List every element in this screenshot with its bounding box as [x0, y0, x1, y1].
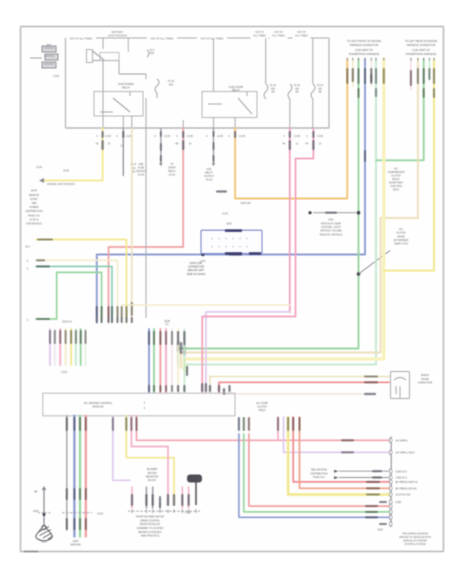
- code2: [79, 488, 81, 500]
- svg-text:C135: C135: [317, 135, 324, 138]
- wire: [66, 416, 68, 530]
- wire: [183, 329, 185, 393]
- svg-text:PK: PK: [282, 144, 286, 146]
- bundle A pin: [116, 317, 118, 323]
- wire: [188, 487, 190, 508]
- orange pin blob: [234, 131, 236, 138]
- connector pin ticks group1: [346, 58, 348, 61]
- frame bottom dash: [24, 551, 38, 553]
- wire pale cap: [224, 393, 363, 395]
- ground symbol G201: [36, 525, 52, 541]
- svg-text:A/C WPR-1: A/C WPR-1: [396, 440, 409, 443]
- big module box: [43, 393, 235, 416]
- pin code: [181, 494, 183, 506]
- pigtail code: [131, 302, 133, 316]
- wire: [73, 416, 75, 537]
- code: [80, 330, 82, 344]
- wire: [171, 329, 173, 393]
- pin2: [228, 385, 230, 392]
- relay R2 box: [94, 92, 143, 117]
- lead to power symbol: [30, 57, 42, 59]
- svg-text:C220: C220: [61, 371, 68, 374]
- wire lavender: [113, 416, 130, 481]
- svg-text:C135: C135: [36, 166, 43, 169]
- end code: [180, 342, 182, 354]
- code: [364, 381, 378, 383]
- wire pink vertical: [289, 128, 291, 312]
- bundle A pin: [101, 317, 103, 323]
- pale code: [370, 74, 372, 84]
- wire pink: [202, 128, 313, 393]
- code: [182, 140, 184, 150]
- splice dot S401: [357, 211, 361, 215]
- code: [364, 375, 378, 377]
- code3: [66, 518, 68, 530]
- svg-text:C290: C290: [377, 530, 383, 532]
- relay body: [100, 53, 119, 61]
- svg-text:PK: PK: [305, 144, 309, 146]
- feed line x128: [127, 38, 129, 52]
- capacitor box: [391, 372, 410, 399]
- code: [375, 68, 377, 84]
- pin: [165, 385, 167, 392]
- wire: [85, 416, 87, 537]
- svg-text:C135: C135: [239, 135, 246, 138]
- wire: [65, 329, 67, 365]
- wire: [75, 329, 77, 365]
- label: [36, 265, 50, 267]
- svg-text:C290 (GY): C290 (GY): [396, 470, 408, 473]
- pin code yellow: [167, 494, 169, 506]
- wire: [153, 329, 155, 393]
- svg-text:C135: C135: [217, 135, 224, 138]
- wire red cap: [219, 381, 389, 383]
- R3 pin down 2: [234, 118, 236, 129]
- svg-text:RD: RD: [175, 144, 179, 146]
- pin blob: [102, 131, 104, 138]
- code: [159, 331, 161, 345]
- wire tan: [181, 59, 418, 368]
- pin: [218, 385, 220, 392]
- end code: [186, 366, 188, 376]
- wire green loop: [36, 272, 102, 322]
- fuse F2: [147, 50, 149, 57]
- wire: [131, 487, 133, 508]
- wire: [70, 329, 72, 365]
- fuse F5 output gray: [312, 99, 314, 128]
- code: [372, 470, 382, 472]
- orange label: [216, 190, 227, 192]
- green code blob: [357, 68, 359, 84]
- motor symbol dark: [187, 475, 202, 483]
- feed to relay R3: [213, 38, 215, 92]
- pin: [159, 385, 161, 392]
- svg-text:C290: C290: [396, 501, 402, 504]
- svg-text:CLUTCH FLD: CLUTCH FLD: [396, 494, 411, 497]
- code on red2: [366, 487, 380, 489]
- pin: [209, 385, 211, 392]
- stub code: [125, 306, 127, 318]
- wire cream LB: [122, 305, 290, 323]
- svg-text:C100: C100: [53, 75, 60, 78]
- pin: [223, 388, 225, 395]
- wire BK: [160, 128, 162, 163]
- feed to relay R1: [102, 38, 104, 49]
- svg-text:30-2: 30-2: [25, 247, 30, 249]
- code: [79, 417, 81, 431]
- wire dark gray long: [145, 98, 147, 318]
- wire red D1: [293, 417, 389, 482]
- wire pink D: [249, 434, 389, 506]
- code on yellow: [366, 493, 380, 495]
- svg-text:C290 (GY): C290 (GY): [396, 477, 408, 480]
- svg-text:C135: C135: [187, 135, 194, 138]
- svg-text:C220: C220: [97, 513, 104, 516]
- wire red D2: [300, 417, 390, 488]
- wire orange OG: [235, 59, 347, 199]
- code: [85, 417, 87, 431]
- arrow 1: [334, 470, 339, 473]
- label: [36, 259, 45, 261]
- connector dashed line C250: [128, 510, 200, 512]
- svg-text:S205: S205: [226, 223, 232, 225]
- fuse box bottom edge: [66, 127, 330, 129]
- label: [36, 318, 50, 320]
- code: [238, 417, 240, 431]
- code: [243, 417, 245, 431]
- code: [135, 417, 137, 431]
- blue code blob2: [364, 150, 366, 162]
- wire green D: [244, 434, 389, 512]
- wire BK 2: [213, 128, 215, 163]
- wire yellow YE: [42, 128, 103, 181]
- arrow 2: [334, 476, 339, 479]
- feed to fuse F5: [312, 38, 314, 84]
- arrow line 2: [339, 477, 389, 479]
- code: [65, 330, 67, 344]
- stub code: [101, 306, 103, 318]
- pin down red feed: [182, 120, 184, 128]
- svg-text:HOT AT ALL TIMES: HOT AT ALL TIMES: [151, 36, 174, 40]
- blue stub code: [96, 306, 98, 318]
- code: [423, 68, 425, 84]
- pin code: [205, 383, 207, 392]
- wire tan cap: [210, 376, 389, 378]
- code: [410, 70, 412, 86]
- wire cream pigtail: [352, 59, 354, 86]
- wire yellow: [126, 416, 174, 505]
- svg-text:C175: C175: [222, 213, 229, 216]
- code: [49, 330, 51, 344]
- label: [379, 523, 387, 525]
- stub code: [116, 306, 118, 318]
- stub code: [121, 306, 123, 318]
- wire: [85, 329, 87, 365]
- svg-text:ENGINE JUNCTION BOX: ENGINE JUNCTION BOX: [47, 183, 75, 186]
- legend code: [325, 212, 337, 214]
- code: [148, 331, 150, 345]
- wire blue: [97, 59, 365, 323]
- fuse F1: [155, 79, 159, 93]
- code: [433, 68, 435, 84]
- svg-text:S220 C2: S220 C2: [62, 321, 72, 324]
- label: [379, 501, 387, 503]
- power box 1: [42, 46, 56, 52]
- pin: [171, 385, 173, 392]
- code: [417, 68, 419, 84]
- dot grid inside blue box: [211, 238, 212, 239]
- wire pale green: [187, 59, 376, 372]
- pin: [148, 385, 150, 392]
- code: [287, 417, 289, 431]
- code3: [383, 68, 385, 84]
- fuse F4: [288, 84, 292, 99]
- label on yellow: [37, 238, 53, 240]
- wire: [54, 329, 56, 365]
- code: [277, 417, 279, 431]
- code: [101, 140, 103, 150]
- code on red1: [366, 481, 380, 483]
- fuse box right edge: [328, 38, 330, 128]
- bundle A pin: [121, 317, 123, 323]
- wire yellow long: [36, 240, 127, 323]
- svg-text:BK PRESS SWITCH: BK PRESS SWITCH: [396, 481, 418, 484]
- wire yellow D: [288, 417, 389, 495]
- green second code: [357, 88, 359, 98]
- feed to fuse F3: [265, 38, 267, 84]
- code: [177, 331, 179, 345]
- wire tan long: [131, 128, 133, 323]
- wire blue D: [239, 434, 389, 517]
- bundle A pin: [131, 317, 133, 323]
- code: [183, 331, 185, 345]
- code2: [433, 88, 435, 98]
- code: [364, 393, 376, 395]
- wire pink: [131, 416, 168, 505]
- wire green 2: [376, 59, 424, 160]
- code3: [79, 518, 81, 530]
- relay coil: [87, 50, 93, 63]
- stub code: [107, 306, 109, 318]
- bundle A pin: [107, 317, 109, 323]
- svg-text:C135: C135: [294, 135, 301, 138]
- resistor extra pin: [159, 502, 161, 509]
- svg-text:C250: C250: [185, 512, 191, 515]
- code2: [73, 488, 75, 500]
- pin code: [131, 494, 133, 506]
- relay switch blade: [93, 51, 105, 60]
- arrow line 1: [339, 470, 389, 472]
- svg-text:C135: C135: [105, 135, 112, 138]
- pin blob: [122, 131, 124, 138]
- R3 switch: [238, 98, 252, 114]
- svg-text:BK PRESS SW SIG: BK PRESS SW SIG: [396, 488, 417, 491]
- code2: [85, 488, 87, 500]
- code: [125, 417, 127, 431]
- wire gray: [122, 128, 124, 176]
- wire pink pigtail: [410, 59, 412, 90]
- pin code2: [173, 494, 175, 506]
- wire: [165, 329, 167, 393]
- pin code: [187, 494, 189, 506]
- pin code 160: [159, 496, 161, 508]
- wire tan cap v: [209, 377, 211, 393]
- code blob: [352, 68, 354, 82]
- blue code blob: [364, 68, 366, 84]
- code: [54, 330, 56, 344]
- code on lavender: [341, 451, 354, 453]
- code: [59, 330, 61, 344]
- leader diagonal: [359, 251, 391, 275]
- svg-text:HOT AT ALL TIMES: HOT AT ALL TIMES: [70, 36, 93, 40]
- wire lavender run: [206, 312, 290, 393]
- wire: [177, 329, 179, 393]
- connector line: [390, 437, 392, 528]
- bundle A pin: [125, 317, 127, 323]
- R2 switch: [113, 98, 130, 112]
- svg-text:BAT: BAT: [47, 44, 52, 47]
- ground lead: [43, 490, 45, 526]
- junction dot blue: [201, 253, 204, 256]
- wire red RD: [109, 128, 184, 323]
- code: [428, 68, 430, 80]
- svg-text:S156 30A: S156 30A: [240, 202, 251, 205]
- wire: [283, 417, 285, 434]
- green end code: [177, 340, 179, 352]
- terminal arrow left: [39, 178, 44, 183]
- orange code blob: [346, 68, 348, 84]
- pin: [153, 385, 155, 392]
- code2: [365, 511, 378, 513]
- code: [112, 417, 114, 431]
- code: [130, 417, 132, 431]
- svg-text:G201: G201: [41, 541, 48, 544]
- code: [153, 331, 155, 345]
- pin: [177, 385, 179, 392]
- pin code: [152, 494, 154, 506]
- wire lavender long: [284, 434, 390, 452]
- blue wire label: [229, 253, 242, 255]
- wire: [80, 329, 82, 365]
- power box 3: [42, 62, 56, 68]
- pin code: [145, 494, 147, 506]
- wire pale pigtail: [370, 59, 372, 86]
- R3 pin down: [213, 118, 215, 129]
- code: [66, 417, 68, 431]
- wire: [59, 329, 61, 365]
- legend line with bullet: [308, 211, 311, 214]
- code: [70, 330, 72, 344]
- pin: [183, 385, 185, 392]
- code2: [423, 88, 425, 98]
- end code: [183, 344, 185, 356]
- code on blue: [365, 516, 378, 518]
- code: [372, 476, 382, 478]
- wire pink-red long: [137, 416, 390, 441]
- code: [298, 417, 300, 431]
- wire: [148, 329, 150, 393]
- fuse box left edge: [65, 38, 67, 128]
- relay R3 box: [202, 92, 257, 118]
- R2 pin down 2: [131, 116, 133, 128]
- wire pale yellow wide: [184, 59, 383, 370]
- wire pink D2: [277, 417, 279, 440]
- connector pin ticks group2: [410, 58, 412, 61]
- code: [171, 331, 173, 345]
- svg-text:A/C WPR-1 HIGH: A/C WPR-1 HIGH: [396, 452, 415, 455]
- R2 pin down: [122, 116, 124, 128]
- svg-text:BK: BK: [34, 491, 38, 494]
- code blob: [370, 68, 372, 82]
- wire teal long: [36, 266, 112, 322]
- connector line C220 lower: [62, 512, 92, 514]
- code: [248, 417, 250, 431]
- bundle A pin: [96, 317, 98, 323]
- svg-text:C135: C135: [164, 135, 171, 138]
- code on red: [341, 439, 354, 441]
- legend line: [313, 212, 356, 214]
- wire yellow 2: [384, 59, 434, 271]
- wire: [159, 329, 161, 393]
- relay output down: [102, 61, 104, 128]
- splice dot 2: [357, 272, 361, 276]
- code: [73, 417, 75, 431]
- svg-text:S135: S135: [63, 170, 69, 173]
- code2: [66, 488, 68, 500]
- pin blob: [182, 131, 184, 138]
- wire: [145, 487, 147, 508]
- wire: [79, 416, 81, 537]
- stub code: [111, 306, 113, 318]
- blue box: [201, 230, 262, 253]
- power box 2: [45, 54, 58, 60]
- fuse box top edge: [66, 37, 330, 39]
- code3: [365, 505, 378, 507]
- wire pale yellow long: [36, 260, 118, 322]
- code: [75, 330, 77, 344]
- bundle A pin: [111, 317, 113, 323]
- wire pale stub: [428, 59, 430, 80]
- pin code: [201, 383, 203, 392]
- wire green GN: [178, 59, 358, 366]
- wire: [152, 487, 154, 508]
- code: [292, 417, 294, 431]
- svg-text:YE: YE: [95, 144, 99, 146]
- code: [84, 330, 86, 344]
- wire: [181, 487, 183, 508]
- wire red cap v: [218, 382, 220, 392]
- pale green second code: [375, 88, 377, 97]
- wire: [49, 329, 51, 365]
- relay contact line: [93, 60, 120, 62]
- code3: [85, 518, 87, 530]
- code: [165, 331, 167, 345]
- svg-text:HOT AT ALL TIMES: HOT AT ALL TIMES: [201, 36, 224, 40]
- code3: [73, 518, 75, 530]
